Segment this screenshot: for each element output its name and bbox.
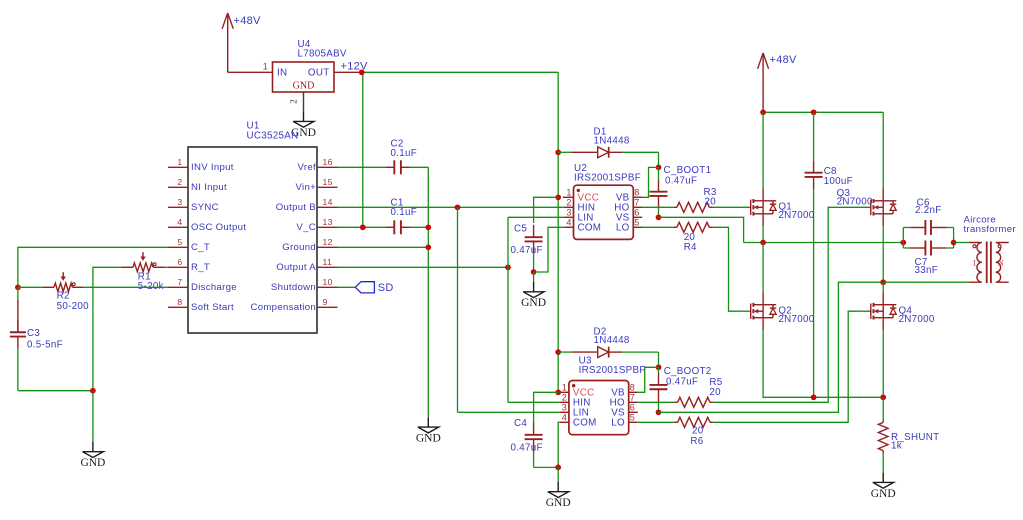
wire +48V rail (763, 111, 883, 113)
svg-text:2N7000: 2N7000 (837, 197, 873, 208)
svg-text:0.5-5nF: 0.5-5nF (27, 340, 63, 351)
svg-text:2N7000: 2N7000 (778, 210, 814, 221)
transformer T1 aircore (969, 243, 982, 283)
svg-text:7: 7 (177, 277, 182, 287)
wire Ground pin to column (338, 246, 429, 248)
svg-text:2N7000: 2N7000 (899, 314, 935, 325)
svg-text:GND: GND (293, 81, 315, 92)
svg-text:R6: R6 (690, 436, 703, 447)
svg-text:UC3525AN: UC3525AN (247, 130, 299, 141)
wire node A rail (744, 242, 904, 244)
svg-text:6: 6 (634, 208, 639, 218)
wire C3 bottom to gnd node (18, 390, 93, 392)
capacitor C2 0.1uF (385, 166, 394, 168)
pin 2 U2 HIN (565, 206, 574, 208)
resistor R4 (674, 226, 677, 228)
svg-text:GND: GND (546, 497, 571, 509)
junction C_BOOT2 top (656, 364, 662, 370)
svg-text:SD: SD (378, 282, 394, 294)
junction Output B branch (455, 204, 461, 210)
svg-text:0.1uF: 0.1uF (391, 148, 418, 159)
ground below column (427, 417, 429, 427)
capacitor C1 0.1uF (385, 226, 394, 228)
svg-text:C_T: C_T (191, 242, 210, 253)
wire gnd node down (92, 391, 94, 442)
wire Shutdown to SD label (338, 286, 356, 288)
wire +12V rail to VCC column (362, 71, 559, 73)
pin 15 U1 Vin+ (317, 186, 338, 188)
svg-text:COM: COM (578, 223, 602, 234)
junction C_T/R2/C3 (15, 284, 21, 290)
wire Q2 drain (762, 243, 764, 293)
resistor R_SHUNT 1k (882, 420, 884, 423)
pin 3 U2 LIN (565, 216, 574, 218)
svg-text:2: 2 (289, 99, 299, 104)
svg-text:20: 20 (705, 197, 717, 208)
svg-text:5: 5 (630, 413, 635, 423)
svg-text:C3: C3 (27, 328, 40, 339)
pin 12 U1 Ground (317, 246, 338, 248)
svg-text:20: 20 (684, 232, 696, 243)
wire C1 to gnd column (410, 226, 428, 228)
svg-text:3: 3 (177, 197, 182, 207)
svg-text:Vin+: Vin+ (296, 182, 317, 193)
svg-text:20: 20 (692, 425, 704, 436)
pin 4 U2 COM (565, 226, 574, 228)
svg-text:4: 4 (177, 217, 182, 227)
svg-text:SYNC: SYNC (191, 202, 219, 213)
wire C_BOOT2 to VB U3 (638, 367, 659, 392)
junction D2 anode (555, 349, 561, 355)
svg-text:C4: C4 (514, 418, 527, 429)
wire Output B down to U3 LIN (457, 207, 459, 412)
svg-text:33nF: 33nF (915, 265, 939, 276)
wire LO U3 to R6 (638, 421, 675, 423)
svg-text:OUT: OUT (308, 68, 330, 79)
pin 7 U1 Discharge (168, 286, 188, 288)
wire D1 cathode to C_BOOT1 (622, 151, 658, 153)
svg-text:C_BOOT1: C_BOOT1 (664, 165, 712, 176)
svg-text:C5: C5 (514, 224, 527, 235)
svg-text:1: 1 (177, 157, 182, 167)
pin 13 U1 V_C (317, 226, 338, 228)
junction C_BOOT2 bottom / VS (656, 409, 662, 415)
pin 2 U4 GND (303, 92, 305, 112)
wire R2 to C3 node (18, 286, 43, 288)
svg-text:4: 4 (566, 218, 571, 228)
pin 1 U1 INV Input (168, 166, 188, 168)
svg-text:GND: GND (416, 433, 441, 445)
svg-text:6: 6 (630, 403, 635, 413)
junction rail Q1 (760, 109, 766, 115)
regulator U4 L7805ABV (273, 62, 335, 92)
capacitor C4 0.47uF (533, 423, 535, 435)
junction Output A branch (505, 264, 511, 270)
wire Q1 source to node A (762, 226, 764, 242)
wire Q3 source to node B (882, 226, 884, 282)
wire to transformer primary (954, 242, 969, 244)
wire LO U2 to R4 (642, 226, 674, 228)
svg-text:50-200: 50-200 (57, 301, 90, 312)
resistor R2 50-200 (trimmer) (43, 286, 54, 288)
svg-text:1: 1 (562, 383, 567, 393)
capacitor C_BOOT1 0.47uF (658, 179, 660, 191)
svg-text:16: 16 (323, 157, 333, 167)
pin 4 U3 COM (560, 421, 569, 423)
svg-text:10: 10 (323, 277, 333, 287)
capacitor C5 0.47uF (533, 225, 535, 237)
driver U3 IRS2001SPBF body (569, 381, 629, 435)
junction gnd node (90, 388, 96, 394)
wire Q2 source to shunt rail (763, 330, 883, 397)
junction D1 anode (555, 149, 561, 155)
svg-text:Output A: Output A (276, 262, 316, 273)
svg-text:2: 2 (566, 198, 571, 208)
svg-text:V_C: V_C (296, 222, 316, 233)
ground below C4 (557, 467, 559, 482)
wire VS U2 to node A (659, 217, 744, 242)
wire C6/C7 right bracket (946, 227, 953, 229)
pin 8 U2 VB (633, 196, 642, 198)
junction node A to C6/C7 (900, 240, 906, 246)
wire R1 left down to gnd node (93, 267, 121, 390)
wire Vref to C2 (338, 166, 386, 168)
ground below C5 (533, 272, 535, 282)
pin 5 U3 LO (629, 421, 638, 423)
junction shunt rail C8 (811, 394, 817, 400)
svg-text:1N4448: 1N4448 (594, 135, 630, 146)
svg-text:LO: LO (616, 223, 630, 234)
pin 16 U1 Vref (317, 166, 338, 168)
svg-text:1N4448: 1N4448 (594, 335, 630, 346)
svg-text:12: 12 (323, 237, 333, 247)
svg-text:0.47uF: 0.47uF (511, 442, 543, 453)
wire R6 to Q4 gate (713, 311, 871, 422)
capacitor C3 0.5-5nF (17, 287, 19, 301)
junction C6/C7 right (951, 240, 957, 246)
svg-text:Shutdown: Shutdown (271, 282, 316, 293)
svg-text:GND: GND (80, 457, 105, 469)
svg-text:13: 13 (323, 217, 333, 227)
svg-text:100uF: 100uF (824, 176, 853, 187)
wire C5 to COM U2 (534, 227, 565, 272)
svg-text:8: 8 (177, 297, 182, 307)
wire VCC column (557, 72, 559, 392)
junction C_BOOT1 top (656, 165, 662, 171)
pin 3 U4 OUT wire (334, 71, 362, 73)
pin 9 U1 Compensation (317, 306, 338, 308)
junction +12V (359, 69, 365, 75)
capacitor C7 33nF (910, 247, 925, 249)
junction node A Q1 (760, 240, 766, 246)
pin 4 U1 OSC Output (168, 226, 188, 228)
pin 7 U3 HO (629, 401, 638, 403)
pin 11 U1 Output A (317, 266, 338, 268)
wire COM U3 down (558, 422, 560, 467)
junction shunt rail Q4 (880, 394, 886, 400)
svg-text:IRS2001SPBF: IRS2001SPBF (574, 173, 641, 184)
pin 6 U1 R_T (168, 266, 188, 268)
transistor Q1 (750, 200, 752, 215)
wire C4 bottom to COM node (534, 466, 559, 468)
wire +48V to U4 IN (228, 71, 273, 73)
svg-text:2: 2 (177, 177, 182, 187)
wire VCC to C4 (534, 392, 559, 423)
svg-text:2N7000: 2N7000 (778, 314, 814, 325)
pin 2 U1 NI Input (168, 186, 188, 188)
svg-text:OSC Output: OSC Output (191, 222, 246, 233)
wire Output A to U3 HIN (507, 267, 509, 402)
pin 1 U3 VCC (558, 391, 569, 393)
diode D1 1N4448 (571, 151, 598, 153)
junction C1 right (425, 224, 431, 230)
wire VCC to C5 (534, 197, 559, 223)
svg-text:8: 8 (630, 383, 635, 393)
pin 6 U3 VS (629, 411, 638, 413)
svg-text:1: 1 (972, 258, 976, 268)
svg-text:5: 5 (177, 237, 182, 247)
pin 3 U3 LIN (560, 411, 569, 413)
svg-text:0.47uF: 0.47uF (511, 245, 543, 256)
pin 10 U1 Shutdown (317, 286, 338, 288)
capacitor C6 2.2nF (910, 227, 925, 229)
junction C_BOOT1 bottom / VS (656, 214, 662, 220)
svg-text:transformer: transformer (964, 224, 1017, 235)
svg-text:2.2nF: 2.2nF (915, 205, 942, 216)
wire C8 top (813, 112, 815, 160)
svg-text:1k: 1k (891, 441, 902, 452)
svg-text:3: 3 (562, 403, 567, 413)
wire R5 to Q3 gate (713, 207, 871, 402)
svg-text:3: 3 (566, 208, 571, 218)
svg-text:8: 8 (634, 188, 639, 198)
wire Output A (338, 266, 509, 268)
pin 5 U1 C_T (168, 246, 188, 248)
wire R4 to Q2 gate (713, 227, 751, 311)
svg-text:11: 11 (323, 257, 333, 267)
wire C2 to gnd column (410, 166, 428, 168)
resistor R6 (674, 421, 677, 423)
power symbol +48V (left) (227, 13, 229, 72)
wire Q4 source to shunt rail (882, 330, 884, 397)
wire gnd column (427, 167, 429, 417)
junction Ground (425, 244, 431, 250)
ground left (92, 442, 94, 452)
junction V_C (360, 224, 366, 230)
wire +12V down to V_C (362, 72, 364, 227)
transistor Q3 (870, 200, 872, 215)
transistor Q4 (870, 304, 872, 319)
svg-text:NI Input: NI Input (191, 182, 227, 193)
svg-text:IN: IN (277, 68, 287, 79)
wire R_SHUNT to ground (882, 453, 884, 472)
svg-text:6: 6 (177, 257, 182, 267)
junction VCC U3 (555, 389, 561, 395)
pin 8 U1 Soft Start (168, 306, 188, 308)
svg-text:+48V: +48V (234, 15, 262, 27)
svg-text:Discharge: Discharge (191, 282, 237, 293)
svg-text:COM: COM (573, 418, 597, 429)
svg-text:7: 7 (630, 393, 635, 403)
svg-text:IRS2001SPBF: IRS2001SPBF (579, 365, 646, 376)
wire VS U3 to node B (659, 282, 884, 412)
svg-text:1: 1 (566, 188, 571, 198)
wire Q4 drain (882, 282, 884, 292)
svg-text:9: 9 (323, 297, 328, 307)
wire Output B to U2 HIN (338, 206, 565, 208)
svg-text:Output B: Output B (276, 202, 316, 213)
wire VCC to D2 (558, 351, 571, 353)
svg-text:C_BOOT2: C_BOOT2 (664, 366, 712, 377)
wire to R_SHUNT (882, 397, 884, 419)
svg-text:Vref: Vref (298, 162, 316, 173)
wire V_C to C1 (338, 226, 386, 228)
svg-text:Ground: Ground (282, 242, 316, 253)
svg-text:GND: GND (871, 488, 896, 500)
resistor R1 5-20k (trimmer) (121, 266, 133, 268)
svg-text:15: 15 (323, 177, 333, 187)
junction C4/COM/GND (555, 465, 561, 471)
wire Discharge to R2 (83, 286, 168, 288)
svg-text:2: 2 (562, 393, 567, 403)
wire node B to transformer (883, 281, 969, 283)
svg-text:0.47uF: 0.47uF (666, 377, 698, 388)
svg-text:GND: GND (521, 297, 546, 309)
wire C6/C7 left bracket (902, 228, 904, 249)
wire HO U3 to R5 (638, 401, 675, 403)
svg-text:5: 5 (634, 218, 639, 228)
pin 8 U3 VB (629, 391, 638, 393)
svg-text:5-20k: 5-20k (138, 281, 164, 292)
svg-text:R2: R2 (57, 290, 70, 301)
svg-text:N: N (998, 258, 1004, 268)
pin 5 U2 LO (633, 226, 642, 228)
svg-text:4: 4 (562, 413, 567, 423)
junction rail C8 (811, 109, 817, 115)
svg-text:1: 1 (263, 62, 268, 72)
svg-text:R4: R4 (684, 242, 697, 253)
pin 7 U2 HO (633, 206, 642, 208)
resistor R3 (674, 206, 677, 208)
ground below U4 (303, 112, 305, 122)
op-amp U1 UC3525AN body (188, 147, 317, 333)
wire VCC to D1 (558, 151, 571, 153)
svg-text:INV Input: INV Input (191, 162, 234, 173)
svg-text:14: 14 (323, 197, 333, 207)
svg-text:L7805ABV: L7805ABV (298, 49, 347, 60)
svg-text:20: 20 (709, 387, 721, 398)
svg-text:Soft Start: Soft Start (191, 302, 234, 313)
svg-text:+48V: +48V (770, 54, 798, 66)
wire R_T to R1 (165, 266, 168, 268)
transistor Q2 (750, 304, 752, 319)
driver U2 IRS2001SPBF body (574, 185, 634, 239)
pin 14 U1 Output B (317, 206, 338, 208)
resistor R5 (674, 401, 677, 403)
wire Q1 drain (762, 112, 764, 188)
pin 1 U2 VCC (563, 196, 574, 198)
wire Output A to U2 LIN (507, 217, 509, 267)
ground below R_SHUNT (882, 473, 884, 483)
svg-text:R_T: R_T (191, 262, 210, 273)
junction node B (880, 279, 886, 285)
junction VCC U2 (555, 194, 561, 200)
wire C8 bottom to shunt rail (813, 189, 815, 397)
global label SD (355, 282, 374, 293)
power symbol +48V (right) (762, 53, 764, 112)
svg-text:7: 7 (634, 198, 639, 208)
svg-text:0.1uF: 0.1uF (391, 207, 418, 218)
wire HO U2 to R3 (642, 206, 674, 208)
svg-text:LO: LO (611, 418, 625, 429)
pin 6 U2 VS (633, 216, 642, 218)
svg-text:0.47uF: 0.47uF (665, 176, 697, 187)
capacitor C8 100uF (813, 160, 815, 172)
wire C_BOOT1 to VB U2 (642, 167, 659, 197)
diode D2 1N4448 (571, 351, 598, 353)
svg-text:Compensation: Compensation (251, 302, 316, 313)
wire C_T (18, 247, 168, 287)
pin 3 U1 SYNC (168, 206, 188, 208)
wire R3 to Q1 gate (713, 206, 751, 208)
wire D2 cathode to C_BOOT2 (622, 351, 658, 353)
junction C5 bottom (531, 269, 537, 275)
wire rail to Q3 drain (882, 112, 884, 188)
capacitor C_BOOT2 0.47uF (658, 373, 660, 385)
pin 2 U3 HIN (560, 401, 569, 403)
